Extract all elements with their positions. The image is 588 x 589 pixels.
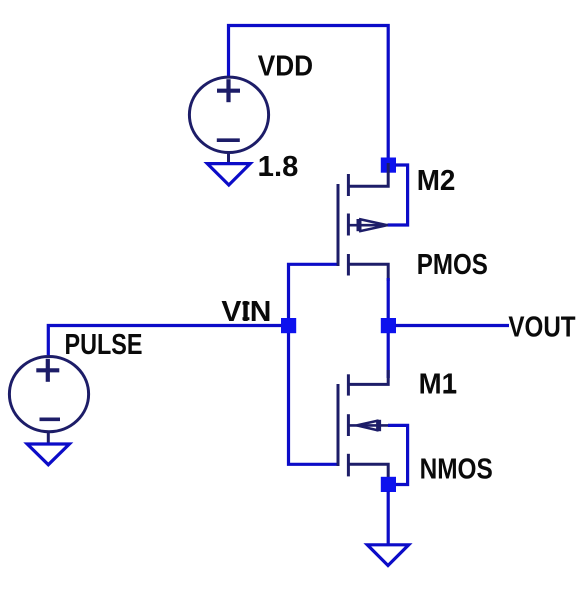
wire VIN vertical to M1 gate [289,332,337,464]
node M1 source junction [381,477,396,492]
channel dash middle [347,414,350,436]
svg-text:VIN: VIN [221,296,271,328]
channel dash top [347,174,350,196]
node N001 (M2 source junction) [381,158,396,173]
svg-text:M2: M2 [417,165,456,197]
wire source node to ground [387,492,390,547]
V2 negative pin stub [47,432,50,445]
V2 minus sign [40,417,61,421]
svg-text:PULSE: PULSE [65,329,143,361]
transistor M1 (NMOS) symbol [338,370,389,478]
svg-text:VDD: VDD [258,51,313,83]
M1 bulk arrow (points left) [357,420,379,431]
gate bar [337,384,340,466]
voltage source V2 (PULSE) circle [9,357,88,432]
drain stub [348,370,388,384]
drain stub [348,264,388,281]
channel dash middle [347,214,350,236]
svg-text:M1: M1 [419,368,457,400]
value 1.8 digit-1 base serif [259,173,270,176]
wire M1 bulk to source node [388,425,408,484]
label M1 digit-1 base serif [444,390,457,393]
wire PULSE source to VIN node [48,326,281,356]
svg-text:1.8: 1.8 [258,151,299,183]
M2 bulk arrow (points right) [359,219,387,231]
channel dash bottom [347,454,350,477]
svg-text:NMOS: NMOS [420,454,493,486]
V1 plus sign [217,79,240,102]
wire M1 drain to VOUT node [387,332,390,378]
transistor M2 (PMOS) symbol [338,163,388,281]
source stub [348,464,388,478]
ground symbol under V2 [27,444,69,465]
wire M2 bulk to node N001 [388,165,408,225]
wire VDD top rail: V1 plus to M2 drain column [229,26,389,166]
bulk stub [348,224,388,227]
bulk stub [348,424,389,427]
voltage source V1 (VDD) circle [189,77,268,152]
label VIN I-serifs [243,302,250,305]
wire VOUT node to label [396,324,510,327]
svg-text:PMOS: PMOS [417,249,488,281]
wire VIN vertical to M2 gate [289,264,337,319]
svg-text:VOUT: VOUT [508,312,576,344]
wire M2 drain to VOUT node [387,278,390,319]
channel dash top [347,374,350,395]
node VIN [281,318,296,333]
ground symbol under V1 [207,164,250,185]
V1 negative pin stub [227,153,230,166]
node VOUT [381,318,396,333]
gate bar [337,184,340,266]
ground symbol at M1 source [367,545,408,566]
V2 plus sign [36,359,59,382]
source stub [348,163,388,186]
V1 minus sign [217,138,240,142]
channel dash bottom [347,254,350,276]
